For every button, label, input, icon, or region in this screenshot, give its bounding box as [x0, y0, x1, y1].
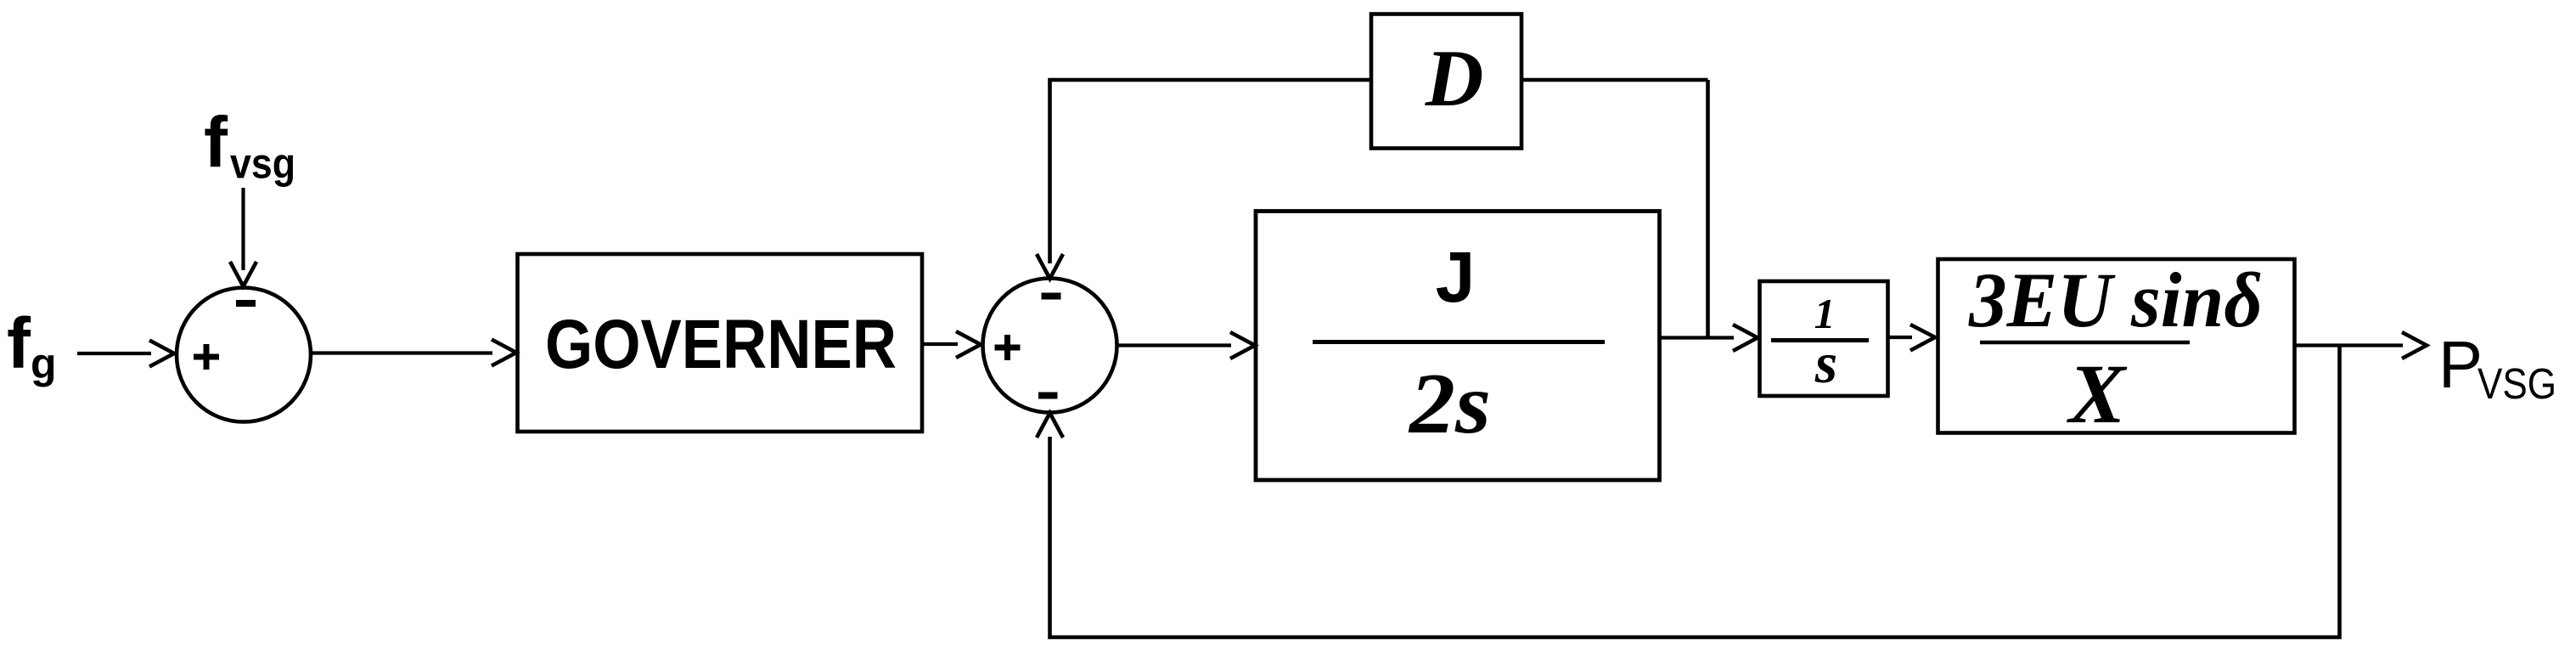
svg-text:X: X — [2067, 347, 2128, 441]
arrowhead into S2 top — [1037, 254, 1063, 279]
block 3EU sin delta / X — [1938, 259, 2295, 433]
wire S1 to GOVERNER — [311, 351, 492, 354]
bottom feedback wire (output branch to S2 bottom) — [1050, 346, 2340, 638]
wire f_vsg down to S1 — [241, 188, 245, 270]
svg-text:P: P — [2438, 327, 2483, 402]
svg-text:g: g — [31, 340, 57, 387]
plus sign in S2 — [995, 335, 1021, 360]
arrowhead of output — [2402, 332, 2427, 359]
svg-text:VSG: VSG — [2478, 359, 2556, 408]
arrowhead into S1 top — [230, 262, 256, 286]
fraction bar of J/2s — [1313, 340, 1605, 344]
wire J/2s to 1/s — [1659, 336, 1734, 339]
block D — [1371, 14, 1521, 149]
wire S2 to block J/2s — [1117, 343, 1231, 347]
summing junction S2 — [983, 279, 1117, 413]
svg-text:D: D — [1425, 33, 1484, 123]
top feedback wire right segment (branch to D) — [1521, 78, 1708, 82]
arrowhead into S2 left — [956, 331, 981, 358]
arrowhead into 3EU block — [1910, 325, 1935, 351]
minus sign (top) in S2 — [1042, 293, 1061, 300]
output wire from 3EU block — [2295, 343, 2404, 347]
svg-text:2s: 2s — [1408, 356, 1491, 452]
wire GOVERNER to summing junction S2 — [922, 342, 958, 346]
input label f_g — [7, 303, 57, 387]
svg-text:J: J — [1436, 237, 1476, 317]
block 1/s — [1760, 281, 1888, 396]
arrowhead into J/2s — [1230, 332, 1255, 359]
fraction bar of 3EU/X — [1980, 341, 2190, 345]
block GOVERNER — [518, 254, 923, 432]
branch wire up to D block — [1706, 80, 1710, 338]
wire f_g to summing junction S1 — [77, 352, 151, 355]
svg-text:3EU sinδ: 3EU sinδ — [1968, 257, 2263, 343]
summing junction S1 — [177, 288, 311, 422]
arrowhead into GOVERNER — [492, 340, 516, 366]
minus sign (bottom) in S2 — [1038, 393, 1058, 399]
fraction bar of 1/s — [1771, 338, 1869, 342]
svg-text:f: f — [7, 303, 31, 383]
wire 1/s to 3EU block — [1888, 336, 1913, 339]
arrowhead into 1/s — [1733, 325, 1758, 351]
input label f_vsg — [204, 103, 295, 188]
arrowhead into S1 left — [149, 341, 174, 367]
top feedback wire left segment (D to S2) — [1050, 80, 1372, 263]
svg-text:f: f — [204, 103, 228, 183]
svg-text:vsg: vsg — [230, 140, 295, 188]
svg-text:s: s — [1814, 330, 1837, 395]
arrowhead into S2 bottom — [1037, 413, 1063, 438]
plus sign in S1 — [194, 344, 219, 370]
minus sign (top) in S1 — [236, 300, 256, 307]
block J/2s — [1256, 212, 1660, 481]
output label P_VSG — [2438, 327, 2556, 408]
svg-text:GOVERNER: GOVERNER — [545, 306, 897, 383]
